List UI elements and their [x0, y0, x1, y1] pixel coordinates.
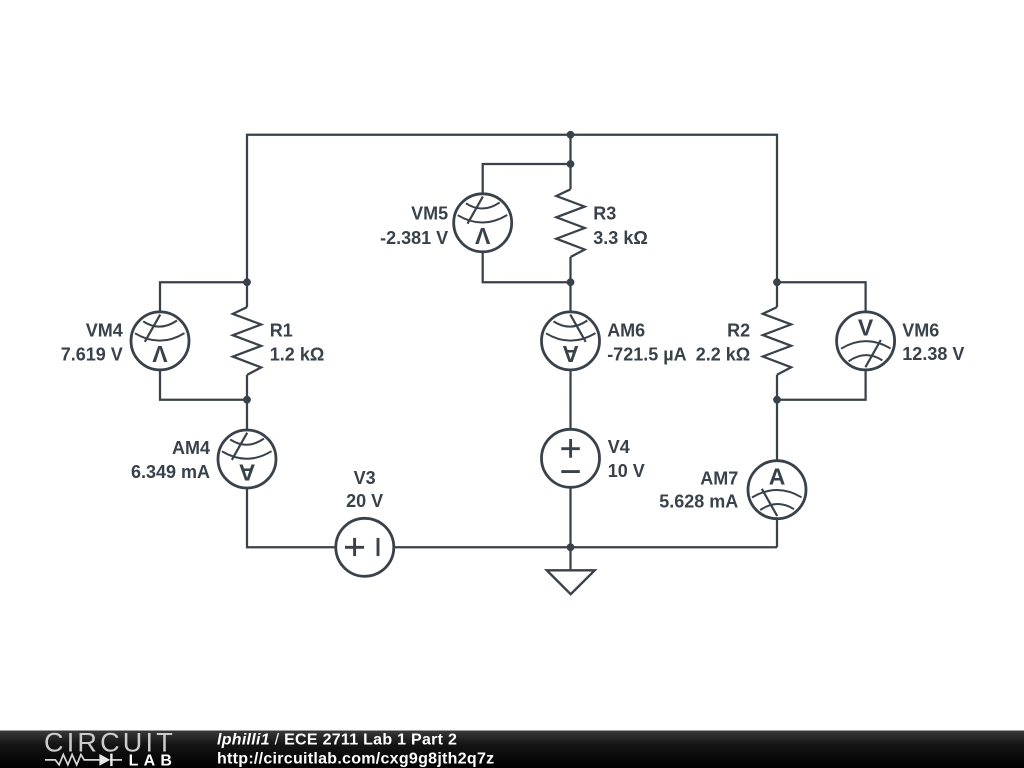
svg-text:http://circuitlab.com/cxg9g8jt: http://circuitlab.com/cxg9g8jth2q7z — [217, 751, 494, 768]
svg-text:-721.5 µA: -721.5 µA — [607, 345, 686, 365]
svg-text:A: A — [769, 463, 786, 489]
svg-text:V: V — [152, 341, 168, 367]
svg-text:A: A — [239, 459, 256, 485]
svg-text:5.628 mA: 5.628 mA — [659, 492, 738, 512]
svg-text:A: A — [562, 341, 579, 367]
svg-text:VM4: VM4 — [86, 320, 123, 340]
svg-text:20 V: 20 V — [346, 491, 383, 511]
svg-text:1.2 kΩ: 1.2 kΩ — [270, 344, 324, 364]
svg-text:AM7: AM7 — [700, 468, 738, 488]
svg-text:V: V — [474, 223, 490, 249]
svg-text:V3: V3 — [354, 468, 376, 488]
svg-text:AM4: AM4 — [172, 438, 210, 458]
svg-text:lphilli1 / ECE 2711 Lab 1 Part: lphilli1 / ECE 2711 Lab 1 Part 2 — [217, 732, 457, 749]
svg-text:2.2 kΩ: 2.2 kΩ — [696, 344, 750, 364]
svg-text:LAB: LAB — [129, 753, 177, 768]
svg-text:R2: R2 — [727, 320, 750, 340]
svg-text:R3: R3 — [593, 203, 616, 223]
svg-text:VM5: VM5 — [411, 203, 448, 223]
svg-text:AM6: AM6 — [607, 321, 645, 341]
svg-text:V: V — [858, 315, 874, 341]
svg-text:6.349 mA: 6.349 mA — [131, 462, 210, 482]
svg-text:3.3 kΩ: 3.3 kΩ — [593, 228, 647, 248]
svg-text:VM6: VM6 — [902, 321, 939, 341]
svg-text:7.619 V: 7.619 V — [61, 344, 123, 364]
svg-text:12.38 V: 12.38 V — [902, 344, 964, 364]
svg-text:10 V: 10 V — [608, 461, 645, 481]
svg-text:V4: V4 — [608, 437, 630, 457]
svg-text:-2.381 V: -2.381 V — [380, 228, 448, 248]
svg-text:R1: R1 — [270, 320, 293, 340]
